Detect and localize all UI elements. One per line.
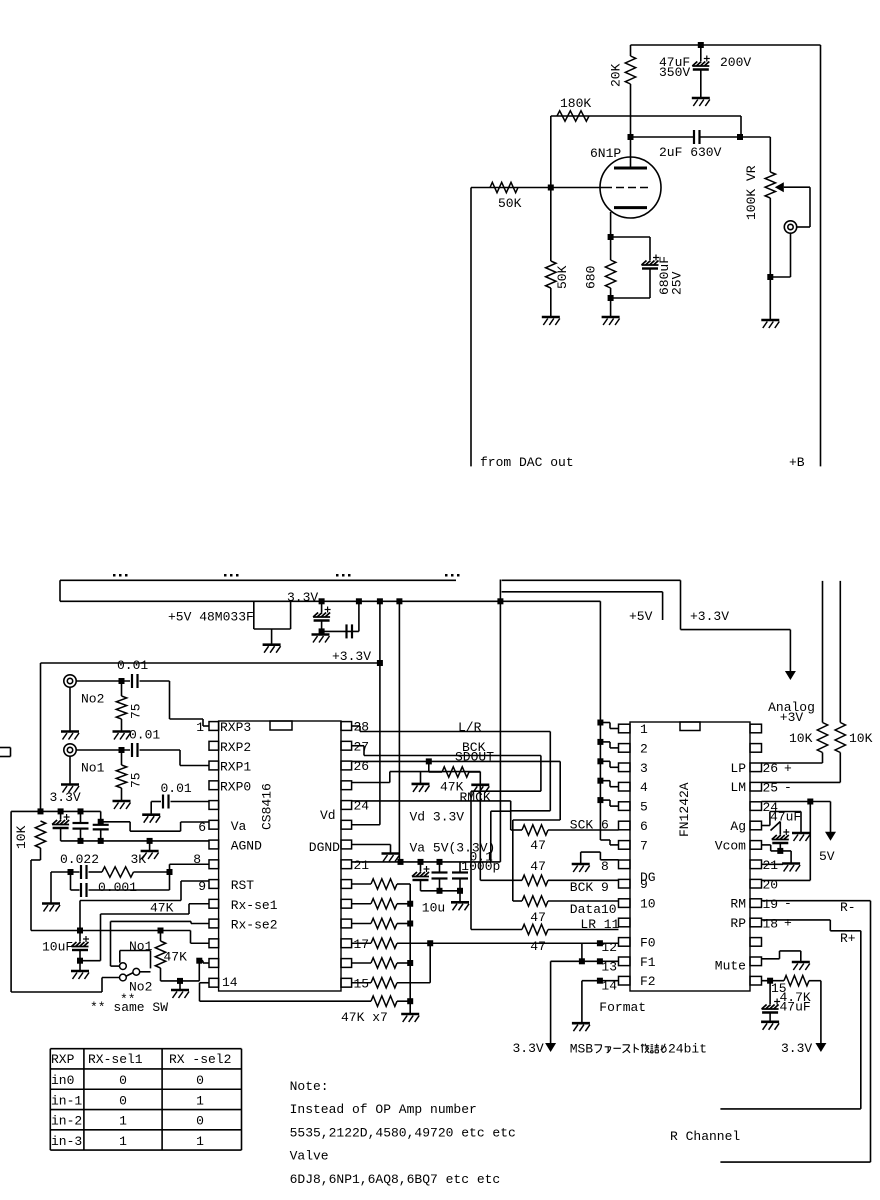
svg-text:9: 9 [640,877,648,892]
svg-text:1: 1 [196,1134,204,1149]
svg-text:Instead of OP Amp number: Instead of OP Amp number [290,1102,477,1117]
svg-text:100K VR: 100K VR [744,165,759,220]
svg-text:Mute: Mute [715,959,746,974]
svg-text:Vd: Vd [320,808,336,823]
svg-text:MSB: MSB [570,1042,594,1057]
svg-text:3K: 3K [131,852,147,867]
svg-text:6: 6 [640,819,648,834]
svg-text:20K: 20K [609,63,624,87]
svg-text:18: 18 [763,916,779,931]
svg-text:3.3V: 3.3V [781,1041,812,1056]
svg-text:1: 1 [119,1114,127,1129]
svg-text:Rx-se1: Rx-se1 [231,898,278,913]
svg-text:2: 2 [640,741,648,756]
svg-text:8: 8 [601,859,609,874]
svg-text:1: 1 [640,722,648,737]
svg-text:47: 47 [530,838,546,853]
svg-text:from DAC out: from DAC out [480,455,574,470]
svg-text:50K: 50K [498,196,522,211]
svg-text:No2: No2 [81,692,104,707]
svg-text:F2: F2 [640,974,656,989]
svg-text:in-3: in-3 [51,1134,82,1149]
svg-text:F0: F0 [640,935,656,950]
svg-text:10uF: 10uF [42,940,73,955]
svg-text:47K: 47K [164,950,188,965]
svg-text:in-1: in-1 [51,1093,82,1108]
svg-text:0.01: 0.01 [161,781,192,796]
svg-text:RX -sel2: RX -sel2 [169,1052,231,1067]
svg-text:+3.3V: +3.3V [690,609,729,624]
svg-text:24bit: 24bit [668,1042,707,1057]
svg-text:2uF 630V: 2uF 630V [659,145,722,160]
svg-text:5V: 5V [819,849,835,864]
svg-text:in-2: in-2 [51,1114,82,1129]
svg-text:10K: 10K [849,731,873,746]
svg-text:3: 3 [640,761,648,776]
svg-text:3.3V: 3.3V [50,790,81,805]
svg-text:12: 12 [601,940,617,955]
svg-text:R-: R- [840,900,856,915]
svg-text:6N1P: 6N1P [590,146,621,161]
svg-text:Va: Va [231,819,247,834]
svg-text:0: 0 [119,1073,127,1088]
svg-text:0: 0 [196,1073,204,1088]
svg-text:0.01: 0.01 [129,728,160,743]
svg-text:+B: +B [789,455,805,470]
svg-text:0.001: 0.001 [98,880,137,895]
svg-text:47uF: 47uF [780,1000,811,1015]
svg-text:180K: 180K [560,96,591,111]
svg-text:R+: R+ [840,931,856,946]
svg-text:27: 27 [354,739,370,754]
svg-text:RM: RM [730,897,746,912]
svg-text:75: 75 [129,772,144,788]
svg-text:10: 10 [640,897,656,912]
svg-text:21: 21 [763,858,779,873]
svg-text:F1: F1 [640,955,656,970]
svg-text:10u: 10u [422,901,445,916]
svg-text:RX-sel1: RX-sel1 [88,1052,143,1067]
svg-text:R Channel: R Channel [670,1129,740,1144]
svg-text:L/R: L/R [458,720,482,735]
svg-text:4: 4 [640,780,648,795]
svg-text:RXP: RXP [51,1052,75,1067]
svg-text:19: 19 [763,897,779,912]
svg-text:RP: RP [730,916,746,931]
svg-text:Valve: Valve [290,1149,329,1164]
svg-text:+5V: +5V [629,609,653,624]
svg-text:RXP0: RXP0 [220,779,251,794]
svg-text:RST: RST [231,878,255,893]
svg-text:75: 75 [129,703,144,719]
svg-text:25V: 25V [670,271,685,295]
svg-text:1: 1 [196,1093,204,1108]
svg-text:RMCK: RMCK [460,790,491,805]
svg-text:Note:: Note: [290,1079,329,1094]
svg-text:LR 11: LR 11 [580,917,619,932]
svg-text:+3.3V: +3.3V [332,649,371,664]
svg-text:Rx-se2: Rx-se2 [231,918,278,933]
svg-text:3.3V: 3.3V [513,1041,544,1056]
svg-text:10K: 10K [789,731,813,746]
svg-text:in0: in0 [51,1073,74,1088]
svg-text:15: 15 [354,976,370,991]
svg-text:680: 680 [584,266,599,289]
svg-text:6DJ8,6NP1,6AQ8,6BQ7 etc etc: 6DJ8,6NP1,6AQ8,6BQ7 etc etc [290,1172,501,1187]
svg-text:0.022: 0.022 [60,852,99,867]
svg-text:0.01: 0.01 [117,658,148,673]
svg-text:+3V: +3V [780,710,804,725]
svg-text:1: 1 [119,1134,127,1149]
svg-text:14: 14 [601,979,617,994]
svg-text:21: 21 [354,858,370,873]
svg-text:17: 17 [354,937,370,952]
svg-text:LP: LP [730,761,746,776]
svg-text:Vcom: Vcom [715,838,746,853]
svg-text:47: 47 [530,939,546,954]
svg-text:50K: 50K [555,265,570,289]
svg-text:47: 47 [530,910,546,925]
svg-text:Ag: Ag [730,819,746,834]
svg-text:5535,2122D,4580,49720 etc etc: 5535,2122D,4580,49720 etc etc [290,1125,516,1140]
svg-text:47K x7: 47K x7 [341,1010,388,1025]
svg-text:SCK 6: SCK 6 [570,818,609,833]
svg-text:No1: No1 [129,939,153,954]
svg-text:Data10: Data10 [570,902,617,917]
svg-text:SDOUT: SDOUT [455,750,494,765]
svg-text:RXP2: RXP2 [220,740,251,755]
svg-text:350V: 350V [659,65,690,80]
svg-text:AGND: AGND [231,839,262,854]
svg-text:0: 0 [119,1093,127,1108]
svg-text:FN1242A: FN1242A [677,782,692,837]
svg-text:** same SW: ** same SW [90,1000,168,1015]
svg-text:0: 0 [196,1114,204,1129]
svg-text:5: 5 [640,800,648,815]
svg-text:47: 47 [530,859,546,874]
svg-text:+: + [784,916,792,931]
svg-text:RXP1: RXP1 [220,760,251,775]
svg-text:CS8416: CS8416 [260,783,275,830]
svg-text:14: 14 [222,975,238,990]
svg-text:200V: 200V [720,55,751,70]
svg-text:No1: No1 [81,761,105,776]
svg-text:13: 13 [601,959,617,974]
svg-text:7: 7 [640,838,648,853]
svg-text:Vd 3.3V: Vd 3.3V [410,810,465,825]
svg-text:Format: Format [599,1000,646,1015]
svg-text:BCK 9: BCK 9 [570,880,609,895]
svg-text:RXP3: RXP3 [220,720,251,735]
svg-text:-: - [784,896,792,911]
svg-text:LM: LM [730,780,746,795]
svg-text:10K: 10K [14,825,29,849]
svg-text:3.3V: 3.3V [287,590,318,605]
svg-text:DGND: DGND [309,840,340,855]
svg-text:+5V 48M033F: +5V 48M033F [168,610,254,625]
